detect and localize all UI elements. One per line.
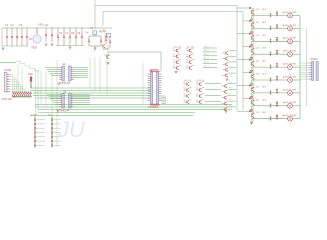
LED L6 (288, 78, 293, 83)
svg-text:D1-D8: D1-D8 (31, 115, 38, 117)
resistor tick R28 (270, 116, 272, 121)
wire - left edge drop (1, 28, 3, 46)
capacitor C10 (81, 29, 83, 37)
wire - row 8 main (252, 105, 287, 107)
wire - vertical riser v4 (37, 70, 39, 112)
regulator U1 lead left (29, 38, 32, 40)
wire - bus line B6 long (35, 106, 232, 108)
ground symbol row 7 (250, 96, 253, 98)
svg-text:Q13..16: Q13..16 (197, 80, 205, 82)
wire - row 8 to right bus (292, 105, 300, 107)
svg-text:Q: Q (196, 94, 198, 96)
wire - cluster A mid stubs (203, 47, 217, 49)
wire - right emitter chain vertical (252, 10, 254, 122)
wire - main +V rail (2, 27, 95, 29)
svg-text:Q5..Q8: Q5..Q8 (187, 46, 194, 48)
capacitor C6 (57, 29, 59, 37)
wire - vertical riser v1 (17, 64, 19, 88)
svg-text:Q9..12: Q9..12 (185, 80, 192, 82)
wire - U2 right nets (74, 66, 88, 68)
wire - U4 right nets (162, 95, 167, 97)
svg-text:CON10: CON10 (310, 59, 318, 61)
resistor tick R24 (270, 65, 272, 70)
svg-text:⍴LED_ROW5: ⍴LED_ROW5 (283, 64, 297, 66)
wire - row 2 main (252, 27, 287, 29)
wire - row 4 feed stub (243, 46, 249, 48)
resistor R12 (276, 24, 278, 30)
LED L9 (288, 116, 293, 121)
wire - vertical riser v9 (89, 57, 91, 88)
wire - bus line B4 (35, 97, 150, 99)
svg-text:Q: Q (184, 100, 186, 102)
svg-text:C4: C4 (19, 23, 23, 27)
svg-text:Q: Q (173, 65, 175, 67)
wire - crystal links (89, 35, 101, 37)
resistor R16 (276, 76, 278, 82)
wire - row 1 main (252, 15, 287, 17)
wire - U2 left nets (45, 66, 59, 68)
svg-text:RN1 10K: RN1 10K (2, 98, 12, 101)
wire - vertical riser v12 (106, 55, 108, 96)
transistor Q8 (252, 98, 255, 105)
wire - row 7 main (252, 92, 287, 94)
wire - vertical riser v10 (94, 57, 96, 91)
svg-text:⍴LED_ROW1: ⍴LED_ROW1 (283, 12, 297, 14)
wire - row 1 feed stub (237, 7, 249, 9)
svg-text:Q: Q (186, 54, 188, 56)
IC U4 body left bar (151, 72, 153, 104)
svg-text:7805: 7805 (31, 46, 37, 50)
diode D2 zener (51, 29, 53, 43)
wire - row 5 to right bus (292, 66, 300, 68)
wire - J2 nets (300, 62, 309, 64)
wire - connector J1 nets to bus (10, 73, 13, 75)
diode D1 (45, 29, 47, 43)
wire - diode column 1 spine (34, 115, 36, 147)
wire - row 3 to right bus (292, 40, 300, 42)
capacitor C5 (26, 29, 28, 37)
wire - row 6 main (252, 79, 287, 81)
ground symbol row 8 (250, 109, 253, 111)
svg-text:ULN2803: ULN2803 (148, 106, 159, 109)
wire - vertical riser v2 (21, 66, 23, 91)
svg-text:C1: C1 (5, 23, 9, 27)
ground symbol row 1 (250, 19, 253, 21)
wire - bus line B2 (33, 92, 150, 94)
node - rail junction dots (6, 27, 9, 30)
connector J1 pins (7, 73, 10, 75)
IC U4 bottom red marks (150, 104, 160, 106)
ground symbol GND1 (1, 48, 4, 50)
junction arrow row 1 (249, 7, 252, 9)
svg-text:Q: Q (184, 88, 186, 90)
ground symbol cluster A (174, 72, 177, 74)
wire - row 3 main (252, 40, 287, 42)
ground symbol cluster A right (225, 79, 228, 81)
IC U3 body left bar (62, 94, 65, 109)
svg-text:Q: Q (184, 94, 186, 96)
connector J2 pins (309, 62, 312, 64)
wire - row 4 emitter drop (251, 54, 253, 58)
resistor R19 (276, 114, 278, 120)
svg-text:RN2: RN2 (28, 73, 33, 76)
wire - vertical riser v7 (51, 74, 53, 116)
wire - Q11 drop (107, 45, 109, 55)
wire - bus line B5 long (35, 104, 232, 106)
LED L3 (288, 39, 293, 44)
wire - row 6 emitter drop (251, 80, 253, 84)
connector J2 body right bar (316, 62, 318, 81)
wire - row 1 emitter drop (251, 15, 253, 19)
svg-text:CON8: CON8 (4, 69, 12, 72)
ground symbol row 5 (250, 71, 253, 73)
wire - vertical riser v6 (45, 72, 47, 107)
diode column 2 (51, 118, 53, 122)
ground symbol for D2 (50, 44, 53, 46)
wire - vertical feed from rail to top nets (94, 0, 96, 28)
resistor R1 reset (105, 33, 107, 37)
wire - vertical riser v3 (35, 68, 37, 115)
connector J1 body (5, 73, 7, 93)
wire - bus entry staircase (16, 61, 21, 63)
capacitor C3 (16, 29, 18, 37)
ground - bypass bank gnd bus (56, 45, 84, 47)
transistor Q5 (252, 60, 255, 67)
transistor Q9 (252, 111, 255, 118)
wire - row 6 feed stub (243, 72, 249, 74)
LED L5 (288, 65, 293, 70)
ground symbol U2 (57, 83, 60, 85)
junction arrow row 7 (249, 84, 252, 86)
LED L2 (288, 26, 293, 31)
svg-text:JU: JU (57, 117, 85, 142)
ground symbol row 3 (250, 45, 253, 47)
ground symbol row 6 (250, 84, 253, 86)
wire - row 5 feed stub (237, 59, 249, 61)
LED L4 (288, 52, 293, 57)
crystal X2 body (107, 33, 111, 37)
ground symbol Q11 (106, 63, 109, 65)
resistor tick R23 (270, 52, 272, 57)
svg-text:Q: Q (196, 82, 198, 84)
ground symbol for D1 (44, 44, 47, 46)
junction arrow row 6 (249, 71, 252, 73)
capacitor C8 (69, 29, 71, 37)
junction arrow row 8 (249, 97, 252, 99)
wire - row 2 feed stub (243, 20, 249, 22)
resistor R14 (276, 50, 278, 56)
ground symbol row 2 (250, 32, 253, 34)
svg-text:Q: Q (186, 65, 188, 67)
transistor Q6 (252, 73, 255, 80)
svg-text:⍴LED_ROW8: ⍴LED_ROW8 (283, 102, 297, 104)
transistor array cluster A left group (176, 49, 178, 53)
svg-text:⍴LED_ROW7: ⍴LED_ROW7 (283, 89, 297, 91)
transistor Q10 reset (103, 44, 105, 48)
wire - right bus vertical net2 (242, 12, 244, 111)
svg-text:74HC244: 74HC244 (59, 110, 70, 113)
transistor Q1 (252, 8, 255, 15)
capacitor C1 (6, 29, 8, 37)
transistor column B right (225, 84, 227, 88)
regulator U1 lead top (36, 28, 38, 34)
svg-text:Q1..Q4: Q1..Q4 (174, 46, 181, 48)
wire - RN1 common (13, 96, 33, 98)
wire - row 4 to right bus (292, 53, 300, 55)
svg-text:⍴LED_ROW4: ⍴LED_ROW4 (283, 51, 297, 53)
resistor tick R21 (270, 26, 272, 31)
resistor R11 (276, 11, 278, 17)
crystal X1 body (93, 31, 97, 35)
ground - left rail gnd bus (2, 45, 28, 47)
wire - bus line B3 (33, 95, 150, 97)
wire - second top net horizontal (103, 11, 243, 13)
svg-text:Q: Q (173, 54, 175, 56)
resistor tick R27 (270, 103, 272, 108)
ground symbol bypass bank (68, 47, 71, 49)
resistor tick R20 (270, 13, 272, 18)
wire - row 3 feed stub (237, 33, 249, 35)
wire - row 7 emitter drop (251, 92, 253, 96)
IC U4 pins left (148, 73, 151, 75)
wire - row 2 emitter drop (251, 28, 253, 32)
wire - vertical riser v5 (40, 71, 42, 105)
wire - row 9 to right bus (292, 118, 300, 120)
ground symbol row 4 (250, 58, 253, 60)
wire - diode column 2 spine (51, 115, 53, 147)
wire - crystal to U4 net (108, 51, 161, 53)
transistor array cluster B left group (187, 82, 189, 86)
capacitor C7 (63, 29, 65, 37)
wire - bus line B0 (30, 87, 150, 89)
svg-text:Q: Q (196, 100, 198, 102)
wire - row 4 main (252, 53, 287, 55)
ground symbol crystal (93, 48, 96, 50)
wire - row 7 to right bus (292, 92, 300, 94)
svg-text:⍴LED_ROW2: ⍴LED_ROW2 (283, 25, 297, 27)
resistor R17 (276, 88, 278, 94)
ground symbol U3 (56, 110, 59, 112)
wire - row 5 main (252, 66, 287, 68)
LED L1 (288, 13, 293, 18)
svg-text:Q: Q (184, 82, 186, 84)
svg-text:Q: Q (196, 88, 198, 90)
svg-text:C2: C2 (11, 23, 15, 27)
capacitor C13 reset (109, 36, 111, 41)
wire - bus line B1 (30, 90, 150, 92)
node RN1 common dot (13, 96, 14, 97)
svg-text:VR1: VR1 (38, 23, 44, 27)
wire - bus line B8 long (38, 112, 195, 114)
wire - vertical riser v11 (99, 57, 101, 93)
wire - U3 right nets (74, 94, 90, 96)
IC U4 pins right (159, 73, 162, 75)
svg-text:⍴LED_ROW6: ⍴LED_ROW6 (283, 76, 297, 78)
IC U4 top red marks (150, 71, 160, 73)
resistor RN2 vertical (30, 77, 32, 89)
wire - bus line B7 long (38, 109, 232, 111)
wire - row 5 emitter drop (251, 67, 253, 71)
svg-text:RST: RST (103, 48, 108, 51)
wire - vertical stub x103 (102, 12, 104, 27)
wire - rail stub right of regulator (95, 27, 112, 29)
wire - vertical riser v13 (142, 63, 144, 105)
svg-text:74HC244: 74HC244 (60, 82, 71, 85)
IC U2 pins (59, 66, 62, 68)
IC U3 pins (59, 94, 62, 96)
wire - row 7 feed stub (237, 84, 249, 86)
junction arrow row 2 (249, 20, 252, 22)
wire - right bus vertical VCC (236, 6, 238, 111)
svg-text:Q: Q (173, 48, 175, 50)
ground symbol row 9 (250, 122, 253, 124)
transistor Q7 (252, 85, 255, 92)
wire - row 8 emitter drop (251, 105, 253, 109)
wire - bus line B9 long (30, 115, 193, 117)
wire - far right vertical bus 2 (306, 28, 308, 106)
svg-text:Q: Q (186, 48, 188, 50)
LED L8 (288, 103, 293, 108)
ground symbol cluster B right (224, 111, 227, 113)
wire - row 9 feed stub (237, 110, 249, 112)
wire - vertical riser v8 (56, 60, 58, 147)
wire - row 2 to right bus (292, 27, 300, 29)
svg-text:Q: Q (186, 60, 188, 62)
svg-text:⍴LED_ROW3: ⍴LED_ROW3 (283, 38, 297, 40)
wire - row 8 feed stub (243, 97, 249, 99)
transistor Q4 (252, 47, 255, 54)
wire - row 1 to right bus (292, 15, 300, 17)
IC U4 body right bar (157, 72, 159, 104)
wire - U3 left nets (47, 94, 59, 96)
label U4 pins top marks (151, 69, 158, 71)
wire - net into U2 area (0, 62, 16, 64)
connector J2 body left bar (312, 62, 314, 81)
IC U3 body right bar (69, 94, 72, 109)
capacitor C4 (21, 29, 23, 37)
capacitor C12 crystal (100, 36, 102, 40)
transistor Q2 (252, 21, 255, 28)
resistor tick R22 (270, 39, 272, 44)
transistor Q11 near crystal (107, 55, 109, 59)
svg-text:⍴LED_ROW9: ⍴LED_ROW9 (283, 115, 297, 117)
wire - row 9 emitter drop (251, 118, 253, 122)
resistor tick R25 (270, 78, 272, 83)
wire - far right vertical bus (299, 16, 301, 119)
resistor R13 (276, 37, 278, 43)
resistor R18 (276, 101, 278, 107)
junction arrow row 3 (249, 33, 252, 35)
transistor column A right (226, 51, 228, 55)
wire - row 9 main (252, 118, 287, 120)
capacitor C9 (75, 29, 77, 37)
resistor tick R26 (270, 90, 272, 95)
resistor network RN1 comb (12, 92, 14, 97)
wire - cluster B mid lines (205, 83, 221, 85)
transistor Q3 (252, 34, 255, 41)
wire - top net VCC horizontal (95, 5, 237, 7)
junction arrow row 4 (249, 46, 252, 48)
junction arrow row 9 (249, 110, 252, 112)
svg-text:Q: Q (173, 60, 175, 62)
diode column 1 (34, 118, 36, 122)
capacitor C11 crystal (88, 36, 90, 40)
IC U2 body left bar (62, 66, 65, 81)
LED L7 (288, 91, 293, 96)
wire - row 6 to right bus (292, 79, 300, 81)
svg-text:4MHz: 4MHz (99, 32, 106, 34)
wire - crystal net mark (104, 54, 110, 56)
IC U2 body right bar (69, 66, 72, 81)
junction arrow row 5 (249, 59, 252, 61)
wire - row 3 emitter drop (251, 41, 253, 45)
resistor R15 (276, 63, 278, 69)
regulator U1 body (33, 35, 41, 43)
wire - U4 right top entry (160, 52, 162, 72)
capacitor C2 (11, 29, 13, 37)
svg-text:+5V: +5V (44, 24, 49, 27)
